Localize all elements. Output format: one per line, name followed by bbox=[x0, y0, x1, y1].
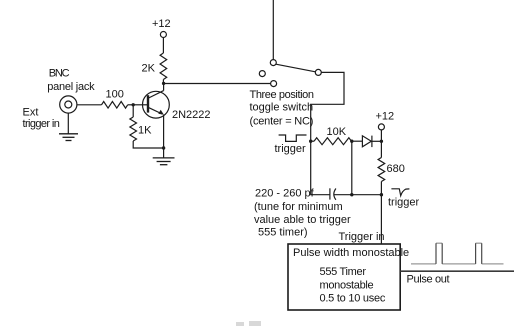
cropped caption smudge bbox=[236, 321, 261, 326]
node A (base junction) bbox=[132, 103, 135, 106]
resistor 100 bbox=[102, 102, 128, 109]
svg-text:2N2222: 2N2222 bbox=[172, 109, 211, 121]
label 1K bbox=[138, 125, 152, 137]
wire node H to node G bbox=[352, 194, 382, 196]
node B (collector node) bbox=[162, 82, 165, 85]
wire node G down to box bbox=[380, 195, 382, 244]
wire R100 to node A bbox=[128, 104, 134, 106]
label 680 bbox=[387, 163, 405, 175]
svg-text:value able to trigger: value able to trigger bbox=[254, 214, 351, 226]
wire node D to R10K bbox=[311, 140, 314, 142]
svg-text:220 - 260 pf: 220 - 260 pf bbox=[255, 188, 315, 200]
label Ext trigger in bbox=[23, 107, 60, 131]
wire node B to switch bottom contact bbox=[164, 83, 271, 85]
label trigger 2 bbox=[388, 197, 420, 209]
svg-text:555 timer): 555 timer) bbox=[258, 227, 308, 239]
label trigger 1 bbox=[275, 143, 307, 155]
svg-text:2K: 2K bbox=[142, 63, 156, 75]
terminal +12 (right) bbox=[378, 124, 384, 130]
wire switch top contact up bbox=[272, 0, 274, 60]
svg-text:680: 680 bbox=[387, 163, 405, 175]
label BNC panel jack bbox=[47, 68, 95, 93]
wire +12 to R2K bbox=[162, 38, 164, 54]
svg-text:100: 100 bbox=[106, 89, 124, 101]
wire switch pole to trigger node bbox=[311, 72, 344, 141]
switch S1 top contact bbox=[270, 60, 276, 66]
svg-text:Pulse width monostable: Pulse width monostable bbox=[293, 247, 409, 259]
svg-text:trigger in: trigger in bbox=[23, 118, 60, 130]
wire node D down to capacitor bbox=[311, 141, 330, 195]
switch S1 center contact (NC) bbox=[259, 71, 265, 77]
svg-text:Three position: Three position bbox=[250, 89, 314, 101]
wire BNC to R100 bbox=[77, 104, 102, 106]
wire R1K bottom to emitter node bbox=[133, 141, 163, 148]
wire collector up to node B bbox=[163, 83, 165, 90]
label Pulse out bbox=[407, 273, 450, 285]
wire node E to diode bbox=[352, 140, 363, 142]
svg-text:monostable: monostable bbox=[320, 279, 374, 291]
switch S1 bottom contact bbox=[271, 81, 277, 87]
wire diode to node F bbox=[372, 140, 381, 142]
switch S1 lever bbox=[276, 64, 316, 72]
wire R2K to node B bbox=[162, 80, 164, 84]
resistor 680 bbox=[378, 158, 385, 182]
BNC panel jack J1 bbox=[60, 96, 77, 113]
label 2K bbox=[142, 63, 156, 75]
node E (10K/diode/cap junction) bbox=[350, 140, 353, 143]
label Three position toggle switch bbox=[250, 89, 314, 128]
trigger waveform 1 bbox=[279, 135, 307, 141]
transistor Q1 2N2222 bbox=[143, 91, 170, 118]
wire node A to base bbox=[133, 104, 147, 106]
svg-text:BNC: BNC bbox=[49, 68, 70, 80]
svg-text:(center = NC): (center = NC) bbox=[250, 116, 314, 128]
wire capacitor to node H bbox=[334, 194, 352, 196]
resistor 2K bbox=[160, 53, 167, 80]
ground (BNC) bbox=[59, 134, 78, 141]
label 100 bbox=[106, 89, 124, 101]
svg-text:1K: 1K bbox=[138, 125, 152, 137]
svg-text:trigger: trigger bbox=[275, 143, 307, 155]
label Trigger in bbox=[339, 231, 385, 243]
label +12 right bbox=[376, 111, 395, 123]
label 555 Timer monostable 0.5 to 10 usec bbox=[320, 266, 386, 305]
wire emitter node to ground bbox=[163, 148, 165, 158]
wire emitter down bbox=[163, 115, 165, 148]
wire +12 right down bbox=[380, 130, 382, 141]
label 220 - 260 pf note bbox=[254, 188, 351, 239]
node D (trigger node) bbox=[309, 140, 312, 143]
label 10K bbox=[327, 126, 347, 138]
wire R680 to node G bbox=[380, 182, 382, 195]
label Pulse width monostable bbox=[293, 247, 409, 259]
node C (emitter/1K junction) bbox=[162, 146, 165, 149]
label +12 left bbox=[152, 18, 171, 30]
node F (diode/+12/680 junction) bbox=[380, 140, 383, 143]
svg-text:Trigger in: Trigger in bbox=[339, 231, 385, 243]
svg-text:Ext: Ext bbox=[23, 107, 39, 119]
node H (cap/10K-branch junction) bbox=[350, 193, 353, 196]
svg-text:0.5 to 10 usec: 0.5 to 10 usec bbox=[320, 293, 386, 305]
svg-text:+12: +12 bbox=[376, 111, 395, 123]
terminal +12 (left) bbox=[160, 32, 166, 38]
wire node A down to R1K bbox=[132, 105, 134, 117]
diode D1 bbox=[362, 136, 372, 148]
svg-text:+12: +12 bbox=[152, 18, 171, 30]
switch S1 pole bbox=[315, 69, 321, 75]
svg-text:10K: 10K bbox=[327, 126, 347, 138]
node G (680/cap junction) bbox=[380, 193, 383, 196]
wire pulse out bbox=[400, 270, 514, 272]
trigger waveform 2 bbox=[391, 189, 409, 196]
label 2N2222 bbox=[172, 109, 211, 121]
svg-text:panel jack: panel jack bbox=[47, 81, 95, 93]
wire node E down to node H bbox=[351, 141, 353, 195]
capacitor C1 220-260pf bbox=[330, 188, 336, 200]
resistor 1K bbox=[130, 117, 137, 141]
svg-text:555 Timer: 555 Timer bbox=[320, 266, 367, 278]
wire BNC to ground bbox=[67, 113, 69, 134]
resistor 10K bbox=[314, 138, 352, 145]
svg-text:Pulse out: Pulse out bbox=[407, 273, 450, 285]
ground (emitter) bbox=[153, 158, 175, 165]
pulse out waveform bbox=[411, 243, 504, 264]
svg-text:toggle switch: toggle switch bbox=[250, 102, 314, 114]
svg-text:trigger: trigger bbox=[388, 197, 420, 209]
box U1 555 monostable bbox=[288, 244, 400, 310]
wire node F to R680 bbox=[380, 141, 382, 157]
svg-text:(tune for minimum: (tune for minimum bbox=[254, 201, 343, 213]
